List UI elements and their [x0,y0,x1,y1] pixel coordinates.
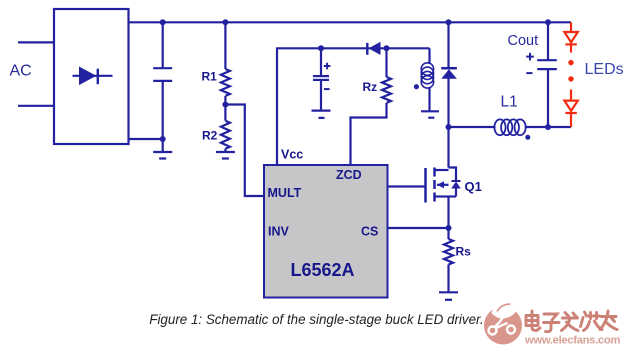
svg-text:L6562A: L6562A [291,260,355,280]
svg-text:R1: R1 [202,70,218,84]
svg-text:R2: R2 [202,129,218,143]
svg-text:Vcc: Vcc [281,148,303,162]
svg-text:LEDs: LEDs [585,61,624,78]
svg-text:INV: INV [268,225,290,239]
svg-text:Cout: Cout [508,33,539,49]
svg-text:ZCD: ZCD [336,168,362,182]
svg-text:MULT: MULT [268,186,302,200]
svg-text:Rz: Rz [363,80,378,94]
svg-text:www.elecfans.com: www.elecfans.com [524,334,620,346]
svg-text:AC: AC [10,63,32,80]
svg-text:Rs: Rs [456,245,472,259]
svg-text:L1: L1 [501,94,518,111]
svg-text:CS: CS [361,225,378,239]
svg-text:Figure 1: Schematic of the sin: Figure 1: Schematic of the single-stage … [149,312,483,327]
svg-text:Q1: Q1 [465,179,482,194]
